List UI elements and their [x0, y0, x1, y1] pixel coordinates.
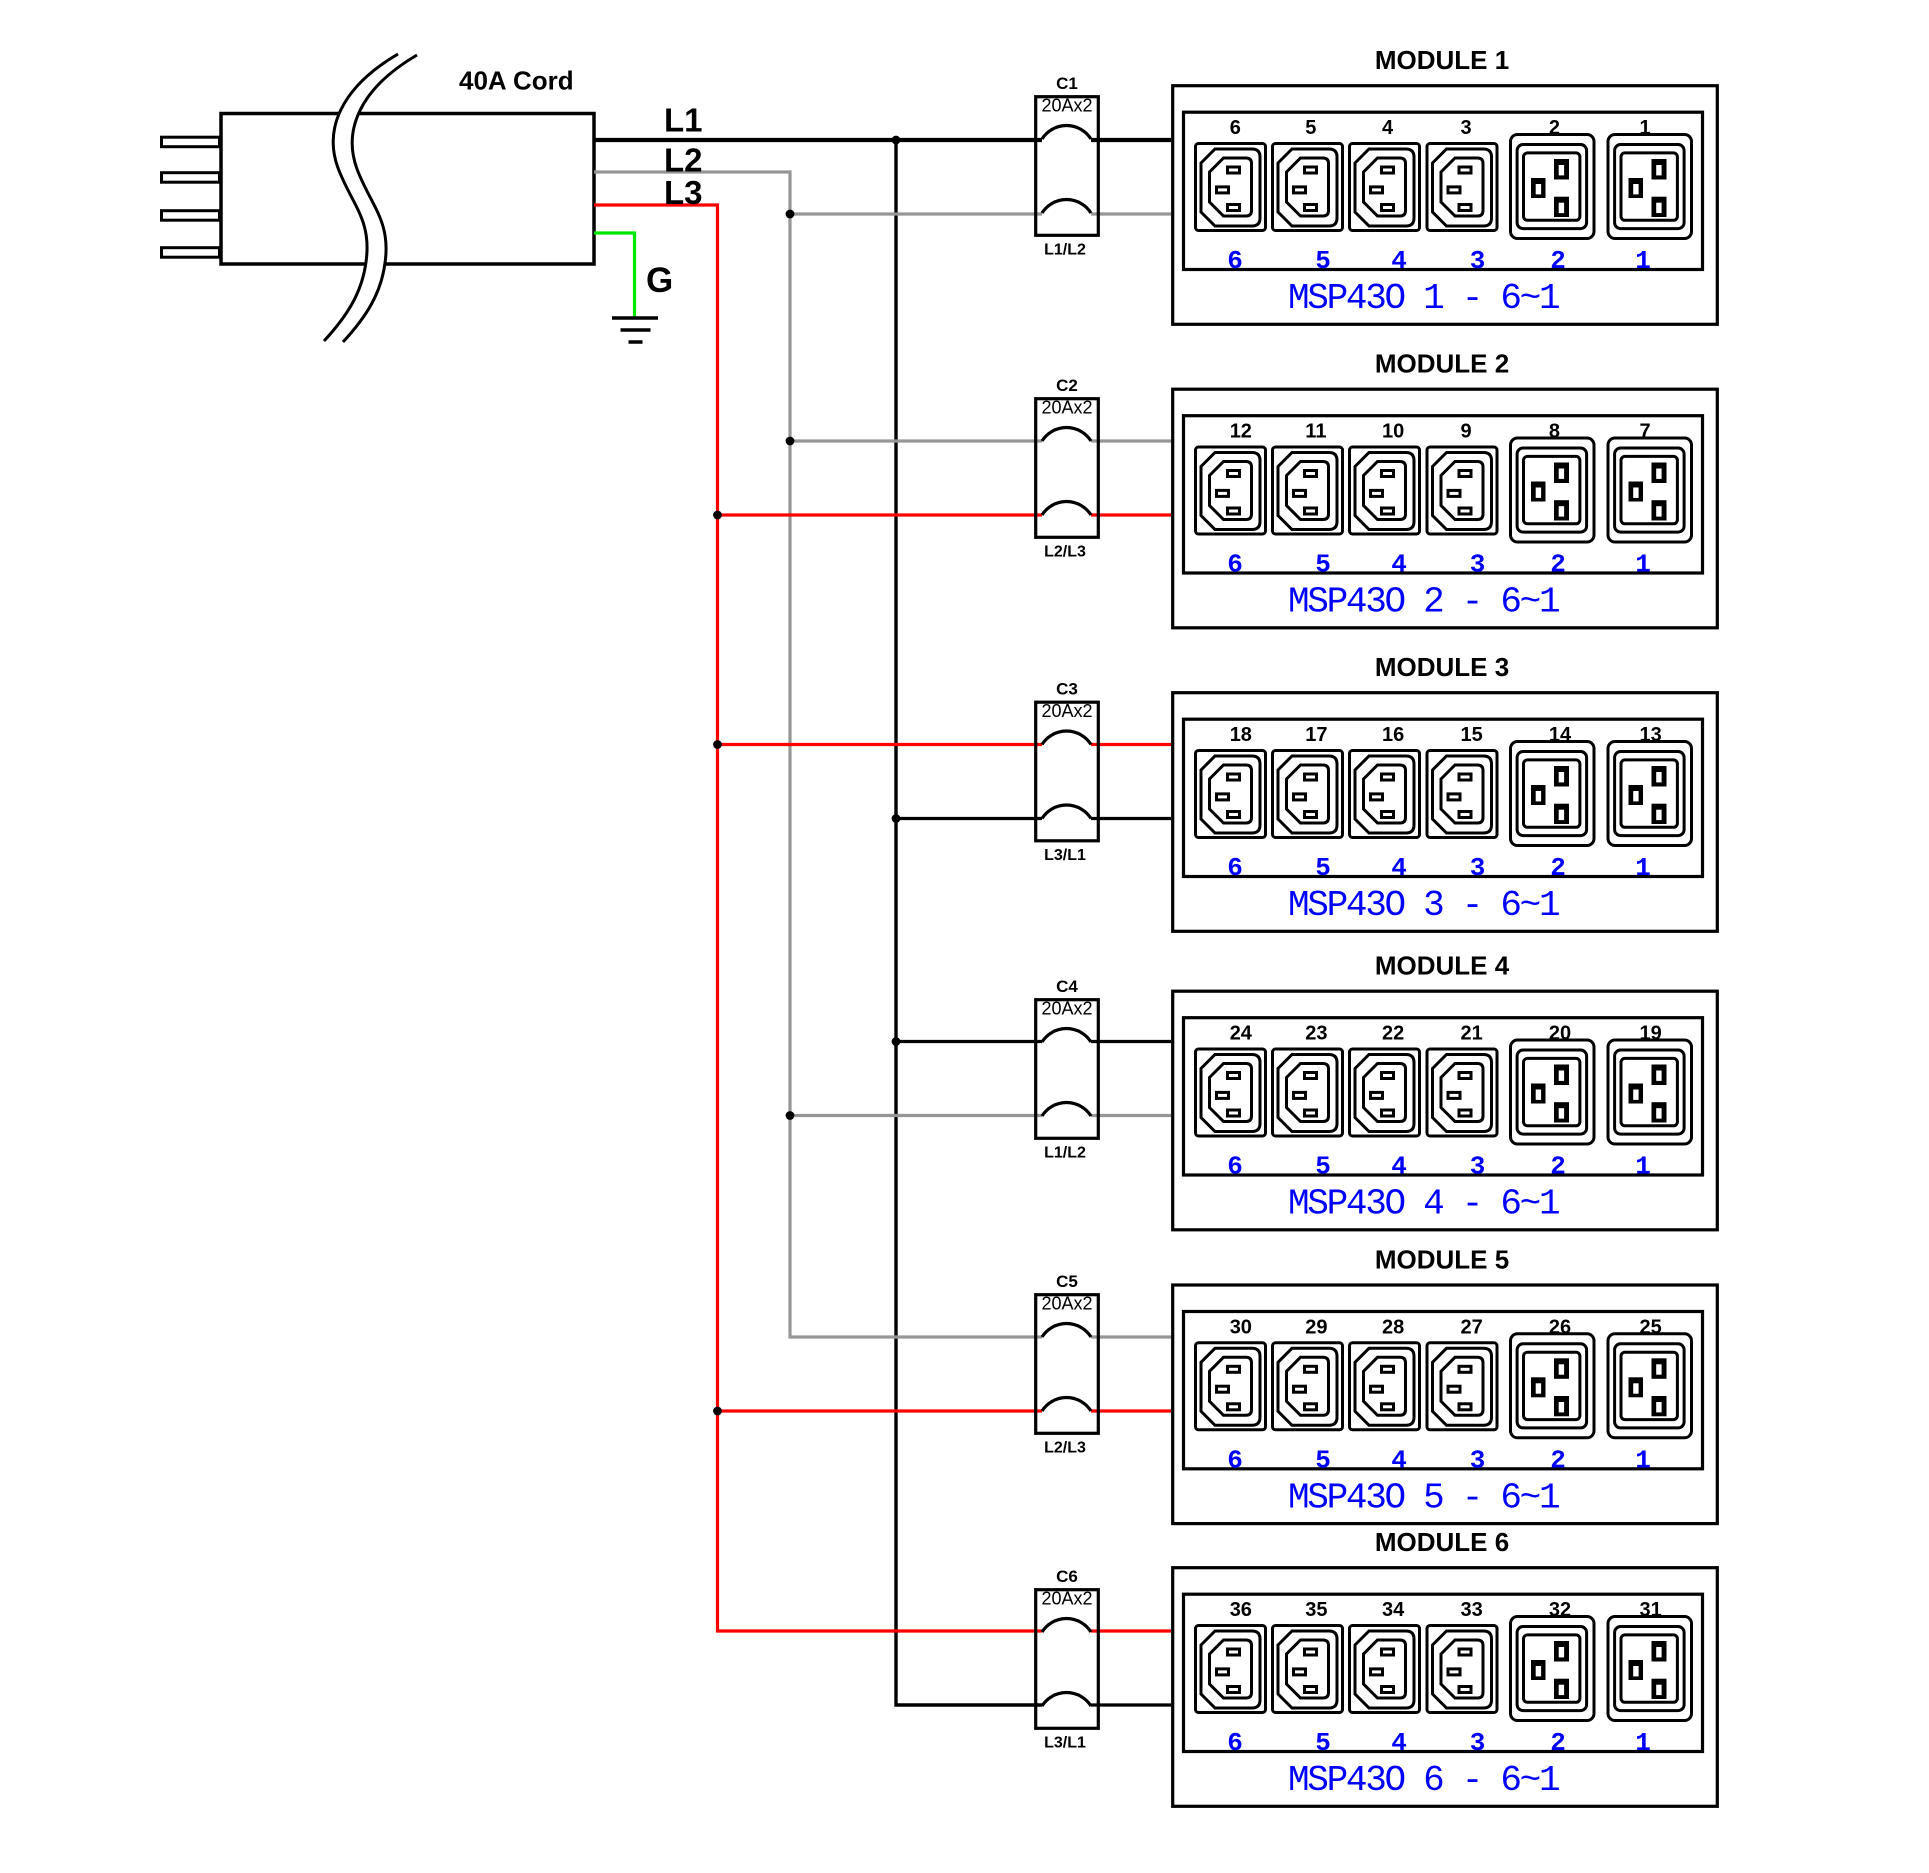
svg-text:4: 4 [1391, 246, 1407, 276]
wire C6 bottom to module 6 [1091, 1703, 1171, 1706]
outlet 4 (C13) module 1 [1350, 144, 1420, 231]
receptacle numbers 6..1 (module 4, blue row) [1227, 1152, 1651, 1182]
outlet 25 (C19) module 5 [1608, 1334, 1692, 1438]
plug body (40A cord connector) [221, 114, 594, 265]
svg-text:20: 20 [1549, 1023, 1571, 1045]
label MSP430 1 - 6~1 [1288, 278, 1559, 319]
value label 20Ax2 (C2) [1041, 398, 1092, 418]
svg-text:4: 4 [1382, 117, 1394, 139]
svg-text:28: 28 [1382, 1316, 1404, 1338]
phase label L1/L2 (C1) [1044, 242, 1086, 259]
outlet 20 (C19) module 4 [1511, 1040, 1595, 1144]
svg-text:30: 30 [1230, 1316, 1252, 1338]
wire L1 branch to breaker C4 top [896, 1040, 1042, 1043]
outlet 33 (C13) module 6 [1427, 1626, 1497, 1713]
svg-text:10: 10 [1382, 421, 1404, 443]
plug prong 2 [162, 173, 220, 183]
svg-text:C6: C6 [1056, 1567, 1078, 1586]
svg-text:2: 2 [1550, 853, 1566, 883]
value label 20Ax2 (C3) [1041, 701, 1092, 721]
svg-text:7: 7 [1640, 421, 1651, 443]
wire C4 bottom to module 4 [1091, 1114, 1171, 1117]
module 3 title [1375, 652, 1509, 682]
wire L2 branch to breaker C2 top [790, 439, 1042, 442]
svg-text:2: 2 [1549, 117, 1560, 139]
wire C1 bottom to module 1 [1091, 212, 1171, 215]
breaker C2 20Ax2 [1036, 399, 1099, 538]
phase label L2/L3 (C2) [1044, 544, 1086, 561]
svg-text:5: 5 [1315, 550, 1331, 580]
svg-text:8: 8 [1549, 421, 1560, 443]
junction L3 / C2 branch [713, 511, 722, 520]
svg-text:G: G [646, 261, 673, 300]
wire L1 branch to breaker C3 bottom [896, 817, 1042, 820]
module 5 title [1375, 1244, 1509, 1274]
svg-text:5: 5 [1315, 1728, 1331, 1758]
svg-text:20Ax2: 20Ax2 [1041, 1589, 1092, 1609]
svg-text:11: 11 [1305, 421, 1326, 443]
outlet 36 (C13) module 6 [1196, 1626, 1266, 1713]
svg-text:MODULE 3: MODULE 3 [1375, 652, 1509, 682]
outlet 24 (C13) module 4 [1196, 1049, 1266, 1136]
junction L2 / C1 branch [786, 210, 795, 219]
outlet numbers 24..19 (module 4, top row) [1230, 1023, 1662, 1045]
outlet 1 (C19) module 1 [1608, 135, 1692, 239]
svg-text:33: 33 [1461, 1599, 1483, 1621]
svg-text:12: 12 [1230, 421, 1252, 443]
svg-text:6: 6 [1227, 1152, 1243, 1182]
wire L3 branch to breaker C5 bottom [718, 1409, 1043, 1412]
svg-text:34: 34 [1382, 1599, 1405, 1621]
svg-text:20Ax2: 20Ax2 [1041, 999, 1092, 1019]
svg-text:6: 6 [1227, 1445, 1243, 1475]
receptacle numbers 6..1 (module 2, blue row) [1227, 550, 1651, 580]
label MSP430 3 - 6~1 [1288, 885, 1559, 926]
outlet 3 (C13) module 1 [1427, 144, 1497, 231]
svg-text:6: 6 [1227, 853, 1243, 883]
svg-text:35: 35 [1305, 1599, 1327, 1621]
label G [646, 261, 673, 300]
label L1 [664, 102, 703, 139]
svg-text:1: 1 [1635, 1728, 1651, 1758]
wire C2 bottom to module 2 [1091, 513, 1171, 516]
svg-text:25: 25 [1640, 1316, 1662, 1338]
svg-text:18: 18 [1230, 724, 1252, 746]
svg-text:3: 3 [1470, 1445, 1486, 1475]
svg-text:MSP43O 2 - 6~1: MSP43O 2 - 6~1 [1288, 582, 1559, 623]
phase label L2/L3 (C5) [1044, 1440, 1086, 1457]
label C1 [1056, 74, 1078, 93]
wire L1 vertical trunk [896, 140, 1042, 1705]
outlet 31 (C19) module 6 [1608, 1617, 1692, 1721]
svg-text:5: 5 [1305, 117, 1316, 139]
svg-text:36: 36 [1230, 1599, 1252, 1621]
svg-text:MSP43O 4 - 6~1: MSP43O 4 - 6~1 [1288, 1184, 1559, 1225]
svg-text:L1: L1 [664, 102, 703, 139]
outlet 13 (C19) module 3 [1608, 742, 1692, 846]
svg-text:29: 29 [1305, 1316, 1327, 1338]
svg-text:31: 31 [1640, 1599, 1662, 1621]
svg-text:3: 3 [1470, 1728, 1486, 1758]
outlet numbers 36..31 (module 6, top row) [1230, 1599, 1662, 1621]
svg-text:2: 2 [1550, 1152, 1566, 1182]
svg-text:1: 1 [1635, 853, 1651, 883]
svg-text:16: 16 [1382, 724, 1404, 746]
value label 20Ax2 (C6) [1041, 1589, 1092, 1609]
svg-text:19: 19 [1640, 1023, 1662, 1045]
receptacle numbers 6..1 (module 5, blue row) [1227, 1445, 1651, 1475]
junction L2 / C4 branch [786, 1111, 795, 1120]
junction L1 trunk [892, 136, 901, 145]
label MSP430 2 - 6~1 [1288, 582, 1559, 623]
plug prong 1 [162, 137, 220, 147]
svg-text:MODULE 1: MODULE 1 [1375, 45, 1509, 75]
outlet 19 (C19) module 4 [1608, 1040, 1692, 1144]
receptacle numbers 6..1 (module 6, blue row) [1227, 1728, 1651, 1758]
outlet 29 (C13) module 5 [1273, 1343, 1343, 1430]
outlet 11 (C13) module 2 [1273, 447, 1343, 534]
svg-text:26: 26 [1549, 1316, 1571, 1338]
svg-text:L2: L2 [664, 142, 703, 179]
wire L2 branch to breaker C4 bottom [790, 1114, 1042, 1117]
svg-text:4: 4 [1391, 853, 1407, 883]
svg-text:3: 3 [1461, 117, 1472, 139]
svg-text:20Ax2: 20Ax2 [1041, 398, 1092, 418]
svg-text:6: 6 [1230, 117, 1241, 139]
svg-text:MODULE 4: MODULE 4 [1375, 951, 1510, 981]
junction L3 / C3 branch [713, 740, 722, 749]
svg-text:L1/L2: L1/L2 [1044, 242, 1086, 259]
outlet 7 (C19) module 2 [1608, 438, 1692, 542]
label MSP430 5 - 6~1 [1288, 1477, 1559, 1518]
svg-text:3: 3 [1470, 550, 1486, 580]
outlet 14 (C19) module 3 [1511, 742, 1595, 846]
wire C6 top to module 6 [1091, 1629, 1171, 1632]
label MSP430 4 - 6~1 [1288, 1184, 1559, 1225]
svg-text:MSP43O 3 - 6~1: MSP43O 3 - 6~1 [1288, 885, 1559, 926]
wire C1 top to module 1 [1091, 138, 1171, 142]
label C4 [1056, 977, 1078, 996]
module 3 enclosure box [1173, 693, 1718, 932]
outlet 28 (C13) module 5 [1350, 1343, 1420, 1430]
wire C5 top to module 5 [1091, 1335, 1171, 1338]
svg-text:6: 6 [1227, 550, 1243, 580]
wire C2 top to module 2 [1091, 439, 1171, 442]
svg-text:20Ax2: 20Ax2 [1041, 701, 1092, 721]
phase label L3/L1 (C6) [1044, 1735, 1086, 1752]
outlet 26 (C19) module 5 [1511, 1334, 1595, 1438]
svg-text:13: 13 [1640, 724, 1662, 746]
label C2 [1056, 376, 1078, 395]
svg-text:14: 14 [1549, 724, 1572, 746]
outlet 6 (C13) module 1 [1196, 144, 1266, 231]
module 2 enclosure box [1173, 389, 1718, 628]
svg-text:L3/L1: L3/L1 [1044, 847, 1086, 864]
svg-text:1: 1 [1635, 1152, 1651, 1182]
svg-text:MSP43O 1 - 6~1: MSP43O 1 - 6~1 [1288, 278, 1559, 319]
outlet 17 (C13) module 3 [1273, 751, 1343, 838]
svg-text:4: 4 [1391, 1445, 1407, 1475]
svg-text:22: 22 [1382, 1023, 1404, 1045]
svg-text:23: 23 [1305, 1023, 1327, 1045]
svg-text:4: 4 [1391, 1152, 1407, 1182]
svg-text:2: 2 [1550, 550, 1566, 580]
svg-text:5: 5 [1315, 853, 1331, 883]
phase label L3/L1 (C3) [1044, 847, 1086, 864]
breaker C3 20Ax2 [1036, 702, 1099, 841]
label C3 [1056, 680, 1078, 699]
svg-text:L2/L3: L2/L3 [1044, 1440, 1086, 1457]
svg-text:3: 3 [1470, 853, 1486, 883]
outlet 18 (C13) module 3 [1196, 751, 1266, 838]
wire C5 bottom to module 5 [1091, 1409, 1171, 1412]
svg-text:1: 1 [1635, 550, 1651, 580]
receptacle numbers 6..1 (module 3, blue row) [1227, 853, 1651, 883]
wire L3 branch to breaker C2 bottom [718, 513, 1043, 516]
outlet numbers 6..1 (module 1, top row) [1230, 117, 1651, 139]
wire C3 top to module 3 [1091, 743, 1171, 746]
plug prong 3 [162, 211, 220, 221]
outlet 30 (C13) module 5 [1196, 1343, 1266, 1430]
svg-text:4: 4 [1391, 1728, 1407, 1758]
wire L1 horizontal from plug to breaker C1 [594, 138, 1042, 142]
outlet 9 (C13) module 2 [1427, 447, 1497, 534]
module 6 enclosure box [1173, 1568, 1718, 1807]
svg-text:L2/L3: L2/L3 [1044, 544, 1086, 561]
svg-text:C2: C2 [1056, 376, 1078, 395]
svg-text:2: 2 [1550, 1445, 1566, 1475]
junction L1 / C3 branch [892, 814, 901, 823]
module 5 enclosure box [1173, 1285, 1718, 1524]
svg-text:MODULE 6: MODULE 6 [1375, 1527, 1509, 1557]
svg-text:1: 1 [1635, 246, 1651, 276]
svg-text:C3: C3 [1056, 680, 1078, 699]
label L3 [664, 174, 703, 211]
junction L2 / C2 branch [786, 437, 795, 446]
svg-text:1: 1 [1635, 1445, 1651, 1475]
outlet 21 (C13) module 4 [1427, 1049, 1497, 1136]
svg-text:2: 2 [1550, 1728, 1566, 1758]
junction L3 / C5 branch [713, 1407, 722, 1416]
svg-text:6: 6 [1227, 1728, 1243, 1758]
svg-text:3: 3 [1470, 246, 1486, 276]
outlet 23 (C13) module 4 [1273, 1049, 1343, 1136]
value label 20Ax2 (C5) [1041, 1294, 1092, 1314]
wire L2 from plug, vertical trunk to breaker C5 top [594, 172, 1042, 1337]
svg-text:C1: C1 [1056, 74, 1078, 93]
breaker C4 20Ax2 [1036, 1000, 1099, 1139]
breaker C1 20Ax2 [1036, 97, 1099, 236]
svg-text:5: 5 [1315, 1445, 1331, 1475]
svg-text:L3/L1: L3/L1 [1044, 1735, 1086, 1752]
label C6 [1056, 1567, 1078, 1586]
svg-text:20Ax2: 20Ax2 [1041, 96, 1092, 116]
outlet 32 (C19) module 6 [1511, 1617, 1595, 1721]
outlet numbers 30..25 (module 5, top row) [1230, 1316, 1662, 1338]
junction L1 / C4 branch [892, 1037, 901, 1046]
module 1 title [1375, 45, 1509, 75]
svg-text:MODULE 2: MODULE 2 [1375, 349, 1509, 379]
value label 20Ax2 (C1) [1041, 96, 1092, 116]
module 1 enclosure box [1173, 86, 1718, 325]
svg-text:27: 27 [1461, 1316, 1483, 1338]
svg-text:MSP43O 6 - 6~1: MSP43O 6 - 6~1 [1288, 1760, 1559, 1801]
wire L2 branch to breaker C1 bottom [790, 212, 1042, 215]
svg-text:21: 21 [1461, 1023, 1483, 1045]
wire G (ground) green [594, 233, 635, 318]
svg-text:5: 5 [1315, 246, 1331, 276]
svg-text:L3: L3 [664, 174, 703, 211]
outlet numbers 18..13 (module 3, top row) [1230, 724, 1662, 746]
svg-text:MODULE 5: MODULE 5 [1375, 1244, 1509, 1274]
outlet 5 (C13) module 1 [1273, 144, 1343, 231]
value label 20Ax2 (C4) [1041, 999, 1092, 1019]
svg-text:1: 1 [1640, 117, 1651, 139]
svg-text:32: 32 [1549, 1599, 1571, 1621]
label 40A Cord [459, 66, 574, 96]
wire L3 branch to breaker C3 top [718, 743, 1043, 746]
outlet 10 (C13) module 2 [1350, 447, 1420, 534]
svg-text:L1/L2: L1/L2 [1044, 1145, 1086, 1162]
svg-text:C4: C4 [1056, 977, 1078, 996]
svg-text:6: 6 [1227, 246, 1243, 276]
breaker C5 20Ax2 [1036, 1295, 1099, 1434]
svg-text:15: 15 [1461, 724, 1483, 746]
outlet 34 (C13) module 6 [1350, 1626, 1420, 1713]
svg-text:4: 4 [1391, 550, 1407, 580]
svg-text:9: 9 [1461, 421, 1472, 443]
plug prong 4 [162, 248, 220, 258]
svg-text:MSP43O 5 - 6~1: MSP43O 5 - 6~1 [1288, 1477, 1559, 1518]
module 6 title [1375, 1527, 1509, 1557]
outlet 35 (C13) module 6 [1273, 1626, 1343, 1713]
outlet 27 (C13) module 5 [1427, 1343, 1497, 1430]
label MSP430 6 - 6~1 [1288, 1760, 1559, 1801]
svg-text:40A Cord: 40A Cord [459, 66, 574, 96]
outlet 8 (C19) module 2 [1511, 438, 1595, 542]
svg-text:2: 2 [1550, 246, 1566, 276]
svg-text:3: 3 [1470, 1152, 1486, 1182]
ground symbol [612, 318, 658, 342]
svg-text:24: 24 [1230, 1023, 1253, 1045]
module 4 enclosure box [1173, 991, 1718, 1230]
outlet 15 (C13) module 3 [1427, 751, 1497, 838]
module 4 title [1375, 951, 1510, 981]
wire C3 bottom to module 3 [1091, 817, 1171, 820]
phase label L1/L2 (C4) [1044, 1145, 1086, 1162]
outlet 2 (C19) module 1 [1511, 135, 1595, 239]
wire C4 top to module 4 [1091, 1040, 1171, 1043]
outlet numbers 12..7 (module 2, top row) [1230, 421, 1651, 443]
cable break squiggle [324, 54, 417, 342]
svg-text:17: 17 [1305, 724, 1327, 746]
svg-text:C5: C5 [1056, 1272, 1078, 1291]
label L2 [664, 142, 703, 179]
svg-text:20Ax2: 20Ax2 [1041, 1294, 1092, 1314]
outlet 16 (C13) module 3 [1350, 751, 1420, 838]
wire L3 from plug, vertical trunk to breaker C6 top [594, 205, 1042, 1631]
label C5 [1056, 1272, 1078, 1291]
outlet 12 (C13) module 2 [1196, 447, 1266, 534]
svg-text:5: 5 [1315, 1152, 1331, 1182]
breaker C6 20Ax2 [1036, 1590, 1099, 1729]
module 2 title [1375, 349, 1509, 379]
receptacle numbers 6..1 (module 1, blue row) [1227, 246, 1651, 276]
outlet 22 (C13) module 4 [1350, 1049, 1420, 1136]
